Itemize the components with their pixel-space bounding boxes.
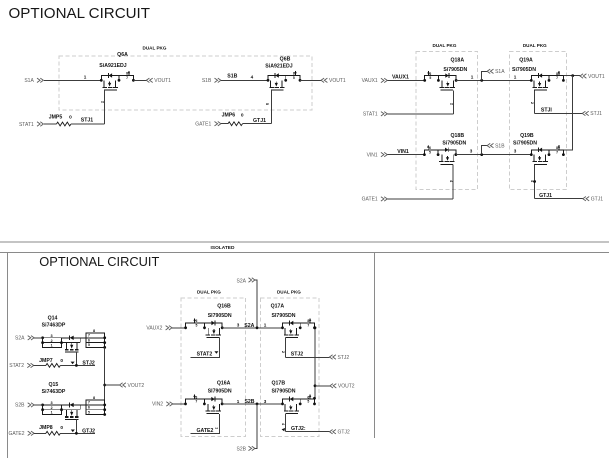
svg-text:VIN1: VIN1 [397,149,409,155]
svg-text:STAT2: STAT2 [197,351,213,357]
wire Q18A gate down [453,90,455,114]
port GATE1 (top-right) [362,197,388,203]
wire VIN2 to Q16A [173,403,186,405]
port S1B [202,78,221,84]
port S2A (bottom-left) [15,336,34,342]
port S1A [24,78,43,84]
svg-text:5: 5 [429,150,431,154]
svg-text:DUAL PKG: DUAL PKG [523,43,547,48]
junction Q17B bus [313,397,316,400]
pin 1 (node S2A right) [264,323,267,328]
isolation band upper rule [0,241,609,243]
svg-text:3: 3 [51,401,53,405]
svg-text:8: 8 [556,146,558,150]
svg-text:6: 6 [88,338,90,342]
net label STJ2 [82,361,95,367]
svg-text:7: 7 [556,150,558,154]
svg-text:VOUT1: VOUT1 [588,74,605,80]
svg-text:Q16B: Q16B [217,304,231,310]
wire GATE2 to JMP8 [34,432,46,434]
wire STJ2 stub [286,357,330,359]
wire Q6B gate down [270,90,272,124]
port GATE1 (top-left) [195,122,221,128]
svg-text:Q14: Q14 [48,315,58,321]
net label GATE2 (stub) [196,426,218,434]
svg-text:OPTIONAL CIRCUIT: OPTIONAL CIRCUIT [9,5,151,22]
wire S1A stub [482,71,487,80]
transistor Q17A [271,304,316,338]
net label GTJ2 [82,429,95,435]
svg-text:Si7905DN: Si7905DN [512,67,536,73]
svg-text:Q19A: Q19A [519,57,533,63]
svg-text:S1B: S1B [202,78,212,84]
svg-text:3: 3 [264,399,267,404]
svg-text:JMP6: JMP6 [222,113,236,119]
port VOUT2 (left circuit) [120,383,145,389]
svg-text:S1A: S1A [24,78,34,84]
port GATE2 (bottom-left) [8,431,34,437]
wire GTJ2 stub [286,431,330,433]
port S1B (mid) [487,143,505,149]
svg-text:VAUX2: VAUX2 [146,326,162,332]
svg-text:SI7905DN: SI7905DN [272,313,296,319]
svg-text:VOUT1: VOUT1 [154,78,171,84]
dual package outline (Q6A/Q6B) [59,56,312,110]
wire JMP6 to GTJ1 [243,123,272,125]
svg-text:SI7905DN: SI7905DN [208,389,232,395]
svg-text:S1B: S1B [495,143,505,149]
svg-text:VAUX1: VAUX1 [392,75,409,81]
svg-text:8: 8 [93,396,95,400]
svg-text:DUAL PKG: DUAL PKG [197,290,221,295]
svg-text:GTJ1: GTJ1 [253,118,266,124]
net label STJI [541,108,553,114]
svg-text:5: 5 [293,76,295,80]
transistor Q18B [423,133,467,165]
wire JMP5 to STJ1 [71,123,105,125]
pin 3 (node S1B right) [514,149,517,154]
label DUAL PKG (Q19) [523,43,547,48]
svg-text:STJ2: STJ2 [291,352,304,358]
svg-text:S2A: S2A [15,336,25,342]
port VOUT1 (left) [146,78,171,84]
net label S1B [227,74,237,80]
svg-text:1: 1 [471,74,474,79]
wire STAT1 to Q18A gate [387,113,453,115]
wire Q19A gate down [534,90,536,113]
svg-text:Si7905DN: Si7905DN [443,67,467,73]
svg-text:SiA921EDJ: SiA921EDJ [265,64,293,70]
svg-text:3: 3 [470,149,473,154]
svg-text:2: 2 [51,339,53,343]
port VOUT1 (right) [321,78,346,84]
svg-text:8: 8 [307,319,309,323]
wire Q6A drain to VOUT1 [133,79,146,81]
port STJ1 (right) [582,111,602,117]
pin 2 label (Q6A gate) [101,101,106,104]
svg-text:Q18B: Q18B [451,133,465,139]
port VIN1 [367,152,388,158]
svg-text:STAT1: STAT1 [19,122,34,128]
transistor Q18A [423,57,467,90]
wire Q16B gate path [190,338,219,358]
net label VAUX1 [392,75,409,81]
gate arrow mark (Q16B) [214,351,218,354]
frame right border [374,253,376,439]
net label STJ2 (right) [291,352,304,358]
pin 2 label (Q18A gate) [449,103,454,106]
svg-text:GATE2: GATE2 [8,431,24,437]
svg-text:GTJ1: GTJ1 [539,193,552,199]
svg-text:STJ2: STJ2 [82,361,95,367]
svg-text:S1B: S1B [227,74,237,80]
svg-text:3: 3 [514,149,517,154]
junction node S1A [480,79,483,82]
net label GTJ1 [539,193,552,199]
svg-text:Si7463DP: Si7463DP [42,323,66,329]
svg-text:6: 6 [429,146,431,150]
pin 1 (node S1A left) [471,74,474,79]
pin 5 label (Q6B gate) [265,103,270,106]
svg-text:S2A: S2A [244,323,254,329]
wire S2B to Q15 [34,404,43,406]
wire Q15 gate down [75,419,77,433]
frame left border [7,253,9,458]
net label VIN1 [397,149,409,155]
junction VOUT2 (right) [314,384,317,387]
dual package outline (Q19A/Q19B) [509,52,566,190]
svg-text:1: 1 [84,74,87,79]
svg-text:STJ2: STJ2 [338,355,350,361]
svg-text:VAUX1: VAUX1 [362,78,378,84]
pin 4 label (Q17B gate) [281,423,286,426]
pin 4 label (Q18B gate) [449,180,454,183]
wire Q18B gate down [452,165,454,199]
dual package outline (Q17) [261,298,319,437]
port S1A (mid) [487,69,505,75]
wire Q14 gate down [75,352,77,365]
port S2B (bottom-left) [15,403,34,409]
net label GTJ2 (right) [291,426,306,432]
label DUAL PKG (Q18) [433,43,457,48]
wire GTJ1 [535,198,583,200]
wire Q6A gate down [104,90,106,124]
dual package outline (Q16) [181,298,246,437]
svg-text:6: 6 [307,395,309,399]
wire Q6B drain to VOUT1 [300,79,321,81]
wire Q16A to Q17B [222,403,282,405]
svg-text:GTJ2:: GTJ2: [291,426,306,432]
svg-text:Q17B: Q17B [272,381,286,387]
wire Q18A to Q19A [456,79,531,81]
junction VOUT1 bus [571,74,574,77]
title OPTIONAL CIRCUIT (bottom) [39,254,159,269]
junction STJ2 [75,364,78,367]
wire Q17B gate path [285,414,287,432]
svg-text:8: 8 [556,72,558,76]
svg-text:ISOLATED: ISOLATED [211,245,235,251]
svg-text:3: 3 [51,334,53,338]
svg-text:VIN2: VIN2 [152,402,163,408]
svg-text:7: 7 [195,400,197,404]
wire VOUT2 bus (left) [104,347,106,414]
svg-text:S1A: S1A [495,69,505,75]
svg-text:7: 7 [88,401,90,405]
transistor Q19B [513,133,565,165]
svg-text:JMP8: JMP8 [39,425,53,431]
svg-text:1: 1 [264,323,267,328]
svg-text:1: 1 [51,344,53,348]
transistor Q14 [41,315,106,352]
pin 4 (Q6B source) [251,74,254,79]
port STAT2 (bottom-left) [9,363,33,369]
svg-text:GTJ2: GTJ2 [338,430,350,436]
port VOUT2 (right circuit) [330,384,355,390]
wire VOUT2 bus (right) [314,326,317,398]
svg-text:5: 5 [88,410,90,414]
svg-text:8: 8 [126,72,128,76]
wire S1B stub [482,146,487,155]
wire JMP7 to STJ2 [61,364,96,366]
port VAUX1 [362,78,388,84]
pin 3 (node S1B left) [470,149,473,154]
wire Q18B to Q19B [456,154,532,156]
svg-text:Q15: Q15 [48,382,58,388]
svg-text:VOUT2: VOUT2 [338,384,355,390]
svg-text:GATE1: GATE1 [195,122,211,128]
net label STJ1 [81,118,94,124]
svg-text:Q16A: Q16A [217,381,231,387]
svg-text:S2B: S2B [15,403,25,409]
wire STAT2 to JMP7 [34,364,46,366]
svg-text:SI7905DN: SI7905DN [208,313,232,319]
port VOUT1 (top-right) [580,74,605,80]
wire STAT1 to JMP5 [44,123,57,125]
svg-text:VOUT1: VOUT1 [329,78,346,84]
svg-text:Q6B: Q6B [280,57,291,63]
svg-text:**: ** [215,426,219,431]
wire VAUX2 to Q16B [172,327,186,329]
svg-text:5: 5 [88,343,90,347]
svg-text:0: 0 [69,114,72,120]
gate arrow mark (Q15) [71,430,75,433]
pin 1 (Q6A source) [84,74,87,79]
svg-text:Si7905DN: Si7905DN [513,141,537,147]
pin 4 label (Q19B gate) [530,180,535,183]
isolation band lower rule [0,252,609,254]
svg-text:Q6A: Q6A [117,52,128,58]
pin 3 (node S2A left) [237,323,240,328]
svg-text:5: 5 [307,400,309,404]
net label GTJ1 [253,118,266,124]
wire Q16B to Q17A [222,327,282,329]
title OPTIONAL CIRCUIT (top) [9,5,151,22]
junction VOUT2 [103,384,106,387]
svg-text:Si7463DP: Si7463DP [42,389,66,395]
label DUAL PKG (Q16) [197,290,221,295]
wire GATE1 to Q18B gate [387,198,453,200]
svg-text:6: 6 [195,319,197,323]
wire Q17A gate path [285,338,287,358]
svg-text:1: 1 [237,399,240,404]
port STAT1 (top-right) [363,112,387,118]
wire GATE1 to JMP6 [221,123,228,125]
port VIN2 [152,402,173,408]
svg-text:STAT2: STAT2 [9,363,24,369]
wire Q19A to VOUT1 [563,75,580,77]
svg-text:1: 1 [514,74,517,79]
wire VAUX1 to Q18A [387,79,424,81]
pin 1 (node S1A right) [514,74,517,79]
transistor Q16B [184,304,232,338]
svg-text:STJ1: STJ1 [81,118,94,124]
label ISOLATED [211,245,235,251]
pin 1 (node S2B left) [237,399,240,404]
svg-text:STJ1: STJ1 [590,111,602,117]
dual package outline (Q18A/Q18B) [416,52,478,190]
transistor Q6A [99,52,135,90]
net label STAT2 (stub) [197,351,213,357]
transistor Q6B [265,57,301,91]
svg-text:GATE1: GATE1 [362,197,378,203]
svg-text:4: 4 [251,74,254,79]
svg-text:5: 5 [195,324,197,328]
svg-text:1: 1 [51,411,53,415]
svg-text:0: 0 [241,113,244,119]
gate arrow mark (Q14) [71,362,75,365]
svg-text:6: 6 [429,72,431,76]
pin 2 label (Q19A gate) [530,102,535,105]
svg-text:JMP5: JMP5 [49,114,63,120]
svg-text:GATE2: GATE2 [196,428,213,434]
svg-text:S2A: S2A [237,278,247,284]
label DUAL PKG [143,46,167,51]
svg-text:3: 3 [237,323,240,328]
resistor JMP6 [222,113,244,126]
net label S2B [244,399,254,405]
resistor JMP5 [49,114,72,126]
port S2A (top stub) [237,278,255,285]
junction node S2B [256,403,259,406]
pin 2 label (Q17A gate) [281,351,286,354]
svg-text:5: 5 [429,76,431,80]
port STAT1 (top-left) [19,122,43,128]
svg-text:Q19B: Q19B [520,133,534,139]
svg-text:S2B: S2B [244,399,254,405]
transistor Q15 [41,382,106,419]
pin 3 (node S2B right) [264,399,267,404]
svg-text:SI7905DN: SI7905DN [272,389,296,395]
wire S2A stub down [255,280,257,328]
svg-text:VOUT2: VOUT2 [128,383,145,389]
port S2B (bottom stub) [237,446,255,452]
wire VOUT1 bus down to Q19B [563,76,572,150]
svg-text:2: 2 [51,406,53,410]
svg-text:0: 0 [60,425,63,431]
wire VOUT2 tap (right) [315,385,330,387]
port GTJ2 (right) [330,430,350,436]
svg-text:GTJ1: GTJ1 [591,197,603,203]
resistor JMP8 [39,425,63,435]
svg-text:SiA921EDJ: SiA921EDJ [99,63,127,69]
svg-text:S2B: S2B [237,447,247,453]
junction GTJ2 [75,432,78,435]
svg-text:DUAL PKG: DUAL PKG [143,46,167,51]
svg-text:STAT1: STAT1 [363,112,378,118]
svg-text:8: 8 [93,329,95,333]
wire STJ1 [535,112,583,114]
transistor Q16A [184,381,232,414]
svg-text:Q18A: Q18A [451,57,465,63]
svg-text:0: 0 [60,358,63,364]
wire S1B to Q6B [221,79,268,81]
svg-text:7: 7 [556,76,558,80]
svg-text:JMP7: JMP7 [39,358,53,364]
transistor Q19A [512,57,565,90]
svg-text:OPTIONAL CIRCUIT: OPTIONAL CIRCUIT [39,254,159,269]
svg-text:DUAL PKG: DUAL PKG [433,43,457,48]
port STJ2 (right) [330,355,350,361]
junction node S2A [256,326,259,329]
wire Q19B gate down [533,165,536,199]
svg-text:Q17A: Q17A [271,304,285,310]
svg-text:7: 7 [307,324,309,328]
svg-text:STJI: STJI [541,108,553,114]
svg-text:VIN1: VIN1 [367,152,378,158]
wire S2B stub down [255,404,257,449]
wire VIN1 to Q18B [387,154,424,156]
svg-text:6: 6 [88,406,90,410]
wire S1A to Q6A [44,79,102,81]
wire JMP8 to GTJ2 [61,432,96,434]
port VAUX2 [146,326,172,332]
transistor Q17B [272,381,316,414]
svg-text:7: 7 [126,76,128,80]
wire VOUT2 tap [105,384,120,386]
svg-text:Si7905DN: Si7905DN [442,141,466,147]
wire Q16A gate path [190,414,219,434]
junction node S1B [480,153,483,156]
svg-text:8: 8 [195,395,197,399]
label DUAL PKG (Q17) [277,290,301,295]
resistor JMP7 [39,358,63,367]
net label S2A [244,323,254,329]
wire S2A to Q14 [34,337,43,339]
svg-text:8: 8 [293,72,295,76]
port GTJ1 (right) [583,197,603,203]
svg-text:7: 7 [88,334,90,338]
gate arrow mark (Q17B) [282,428,286,431]
svg-text:GTJ2: GTJ2 [82,429,95,435]
svg-text:DUAL PKG: DUAL PKG [277,290,301,295]
